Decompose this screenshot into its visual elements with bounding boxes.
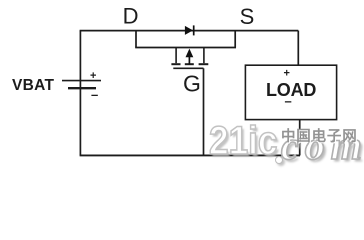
Q1 body arrow bbox=[186, 49, 194, 65]
watermark 21ic bbox=[209, 121, 278, 161]
wire gate down to bottom rail bbox=[203, 68, 205, 155]
Q1 drain contact bar bbox=[171, 63, 180, 65]
wire second rail across MOSFET bbox=[135, 47, 236, 49]
wire load top drop bbox=[297, 31, 299, 66]
battery B1 VBAT bbox=[62, 81, 101, 89]
wire drain drop from top rail bbox=[135, 31, 137, 48]
wire load bottom drop bbox=[299, 120, 301, 156]
Q1 gate plate bbox=[173, 67, 203, 69]
Q1 drain stub bbox=[175, 48, 177, 64]
transistor Q1 MOSFET bbox=[171, 48, 208, 156]
wire bottom rail VBAT- bbox=[80, 154, 300, 156]
wire battery branch vertical bbox=[79, 31, 81, 156]
svg-text:–: – bbox=[91, 87, 98, 102]
watermark dot of .com bbox=[275, 156, 283, 164]
watermark .com bbox=[281, 126, 364, 166]
load RL box bbox=[245, 65, 336, 119]
svg-text:G: G bbox=[183, 71, 201, 97]
svg-text:S: S bbox=[240, 4, 255, 29]
wire source drop from top rail bbox=[234, 31, 236, 48]
battery short plate (-) bbox=[68, 87, 96, 89]
svg-text:D: D bbox=[123, 3, 139, 28]
svg-text:+: + bbox=[284, 67, 290, 79]
svg-text:VBAT: VBAT bbox=[12, 77, 54, 94]
svg-text:–: – bbox=[285, 93, 292, 108]
watermark chinese 中国电子网 bbox=[281, 130, 358, 145]
battery long plate (+) bbox=[62, 80, 101, 82]
Q1 source contact bar bbox=[199, 63, 209, 65]
Q1 body contact bar bbox=[185, 63, 194, 65]
diode D1 body diode bbox=[185, 25, 194, 35]
wire top rail VBAT+ to load bbox=[80, 30, 299, 32]
svg-text:+: + bbox=[90, 70, 96, 82]
Q1 source stub bbox=[203, 48, 205, 64]
